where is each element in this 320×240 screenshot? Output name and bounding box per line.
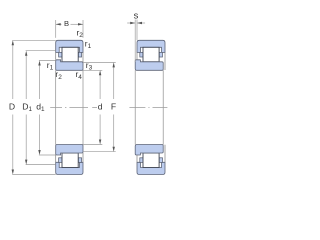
D leader bottom	[12, 174, 55, 176]
cage box top-right	[78, 52, 81, 57]
svg-text:s: s	[134, 10, 139, 21]
d arrow down	[99, 140, 101, 145]
svg-text:d1: d1	[36, 101, 45, 113]
svg-text:r1: r1	[47, 60, 54, 72]
outer ring bottom section	[56, 162, 83, 174]
cage box top-left	[59, 52, 62, 57]
roller bottom	[62, 153, 78, 168]
d1 leader top	[39, 60, 56, 62]
s arrow pointing right	[130, 22, 135, 24]
d1 dimension line	[39, 65, 41, 99]
d1 arrow up	[38, 61, 40, 66]
svg-text:r2: r2	[77, 27, 84, 39]
face line right view right side	[164, 53, 166, 71]
cage box top-left (right view)	[140, 52, 143, 57]
d arrow up	[99, 70, 101, 75]
d1 leader bottom	[39, 154, 56, 156]
s arrow tail left	[127, 22, 135, 24]
outer ring top section	[137, 40, 165, 52]
s extension right	[136, 20, 138, 41]
B dimension line left part	[56, 23, 62, 25]
D1 leader bottom	[26, 164, 56, 166]
d dimension line	[99, 75, 101, 100]
cage box bottom-right (right view)	[159, 158, 162, 163]
cage box bottom-left (right view)	[140, 158, 143, 163]
d leader top	[83, 69, 102, 71]
D1 leader top	[26, 50, 56, 52]
B dimension line right part	[71, 23, 84, 25]
face line right view left side	[136, 53, 138, 60]
roller top (right view)	[143, 47, 159, 62]
s arrow tail right	[138, 22, 146, 24]
centerline left view	[50, 106, 97, 108]
F arrow down	[113, 147, 115, 152]
face line across open gap, left view right side	[82, 53, 84, 63]
inner ring bottom section shifted left	[135, 145, 163, 156]
svg-text:r2: r2	[55, 69, 62, 81]
outer ring top section	[56, 40, 83, 52]
face line left view left side	[55, 53, 57, 60]
svg-text:B: B	[64, 19, 69, 28]
F arrow up	[113, 62, 115, 67]
inner ring top section shifted left	[135, 60, 163, 71]
D1 arrow up	[25, 51, 27, 56]
D arrow up	[12, 40, 14, 45]
B extension right	[82, 20, 84, 38]
svg-text:F: F	[111, 101, 116, 111]
cage box top-right (right view)	[159, 52, 162, 57]
shaft/bore silhouette left view	[55, 70, 57, 144]
F leader bottom	[83, 151, 116, 153]
s arrow pointing left	[137, 22, 142, 24]
D leader top	[12, 39, 55, 41]
D dimension line	[12, 45, 14, 100]
roller top	[62, 47, 78, 62]
inner ring top section (flange left)	[56, 60, 83, 71]
outer ring bottom section (right view)	[137, 162, 165, 174]
D1 arrow down	[25, 160, 27, 165]
svg-text:D1: D1	[22, 101, 32, 113]
F dimension line	[113, 67, 115, 99]
cage box bottom-left	[59, 158, 62, 163]
svg-text:D: D	[9, 101, 15, 111]
F leader top	[83, 61, 116, 63]
D arrow down	[12, 170, 14, 175]
roller bottom (right view)	[143, 153, 159, 168]
svg-text:r3: r3	[86, 60, 93, 72]
svg-text:r4: r4	[76, 69, 83, 81]
B extension left	[55, 20, 57, 38]
svg-text:d: d	[98, 101, 103, 111]
centerline right view	[129, 106, 167, 108]
cage box bottom-right	[78, 158, 81, 163]
d leader bottom	[83, 144, 102, 146]
s extension left	[134, 20, 136, 62]
D1 dimension line	[25, 55, 27, 99]
d1 arrow down	[38, 150, 40, 155]
B arrow right	[78, 23, 83, 25]
svg-text:r1: r1	[85, 38, 92, 50]
B arrow left	[56, 23, 61, 25]
shaft silhouette right view	[134, 70, 136, 144]
inner ring bottom section (flange left)	[56, 145, 83, 156]
